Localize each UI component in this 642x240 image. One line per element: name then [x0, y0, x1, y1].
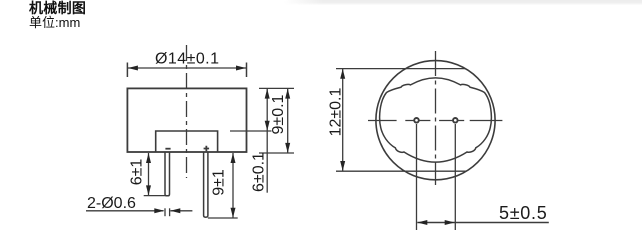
svg-text:Ø14±0.1: Ø14±0.1 [155, 51, 219, 68]
dim 6±0.1 bottom arrowhead [265, 121, 270, 131]
dim 9±1 top arrowhead [231, 153, 236, 163]
dim 9±1 bottom extension line [208, 217, 238, 219]
plus polarity mark [204, 146, 210, 151]
left pin hole [414, 118, 419, 123]
minus polarity mark [165, 148, 170, 150]
2-Ø0.6 right arrowhead toward lead [154, 208, 164, 213]
dim Ø14±0.1 extension line right [246, 63, 248, 78]
outer circle (case) [376, 61, 495, 180]
wavy inner outline [380, 78, 492, 162]
horizontal centerline [368, 120, 502, 122]
buzzer body outline [127, 88, 246, 152]
dim 6±1 bottom extension line [144, 195, 170, 197]
centerline vertical (left view) [186, 45, 188, 178]
dim 5±0.5 right arrowhead [445, 220, 455, 225]
dim 9±0.1 dimension line [287, 89, 289, 153]
dim 9±1 dimension line (right lead) [232, 153, 234, 218]
dim 6±1 top arrowhead [146, 153, 151, 163]
dim Ø14±0.1 dimension line [128, 67, 246, 69]
dim 12±0.1 dimension line [342, 69, 344, 171]
dim 12±0.1 top arrowhead [340, 69, 345, 79]
svg-text:6±1: 6±1 [129, 159, 146, 186]
dim Ø14±0.1 right arrowhead [236, 66, 246, 71]
dim 12±0.1 top extension line [336, 68, 466, 70]
svg-text:6±0.1: 6±0.1 [251, 152, 268, 192]
dim 5±0.5 left pin extension line [416, 124, 418, 230]
dim 9±0.1 top arrowhead [285, 89, 290, 99]
dim Ø14±0.1 extension line left [126, 63, 128, 78]
2-Ø0.6 leader line with underline [86, 210, 164, 212]
2-Ø0.6 opposite segment [170, 210, 192, 212]
right side: bottom extension line (body bottom) [259, 152, 294, 154]
dim 5±0.5 dimension line [417, 222, 549, 224]
dim Ø14±0.1 left arrowhead [128, 66, 138, 71]
dim 6±0.1 dimension line [266, 89, 268, 193]
svg-text:9±1: 9±1 [211, 169, 228, 196]
svg-text:5±0.5: 5±0.5 [499, 203, 547, 223]
svg-text:9±0.1: 9±0.1 [270, 94, 287, 134]
dim 6±0.1 top arrowhead [265, 89, 270, 99]
dim 5±0.5 right pin extension line [454, 124, 456, 230]
base step rectangle [156, 131, 218, 152]
vertical centerline [435, 51, 437, 185]
dim 6±1 dimension line (left lead) [148, 153, 150, 195]
left lead (pin) [165, 152, 170, 196]
right side: step extension line [230, 130, 272, 132]
2-Ø0.6 left arrowhead [170, 208, 180, 213]
header grey band [283, 0, 642, 5]
right lead (pin) [204, 152, 208, 217]
svg-text:2-Ø0.6: 2-Ø0.6 [87, 195, 136, 212]
dim 9±1 bottom arrowhead [231, 208, 236, 218]
right side: top extension line (body top) [259, 87, 294, 89]
subtitle 单位:mm [29, 12, 80, 31]
svg-text:12±0.1: 12±0.1 [328, 87, 345, 136]
title 机械制图 [29, 0, 86, 18]
right pin hole [453, 118, 458, 123]
lead edge tick left [164, 208, 166, 216]
dim 9±0.1 bottom arrowhead [285, 143, 290, 153]
dim 5±0.5 left arrowhead [417, 220, 427, 225]
dim 6±1 bottom arrowhead [146, 185, 151, 195]
dim 12±0.1 bottom extension line [336, 170, 466, 172]
lead edge tick right [169, 208, 171, 216]
dim 12±0.1 bottom arrowhead [340, 161, 345, 171]
